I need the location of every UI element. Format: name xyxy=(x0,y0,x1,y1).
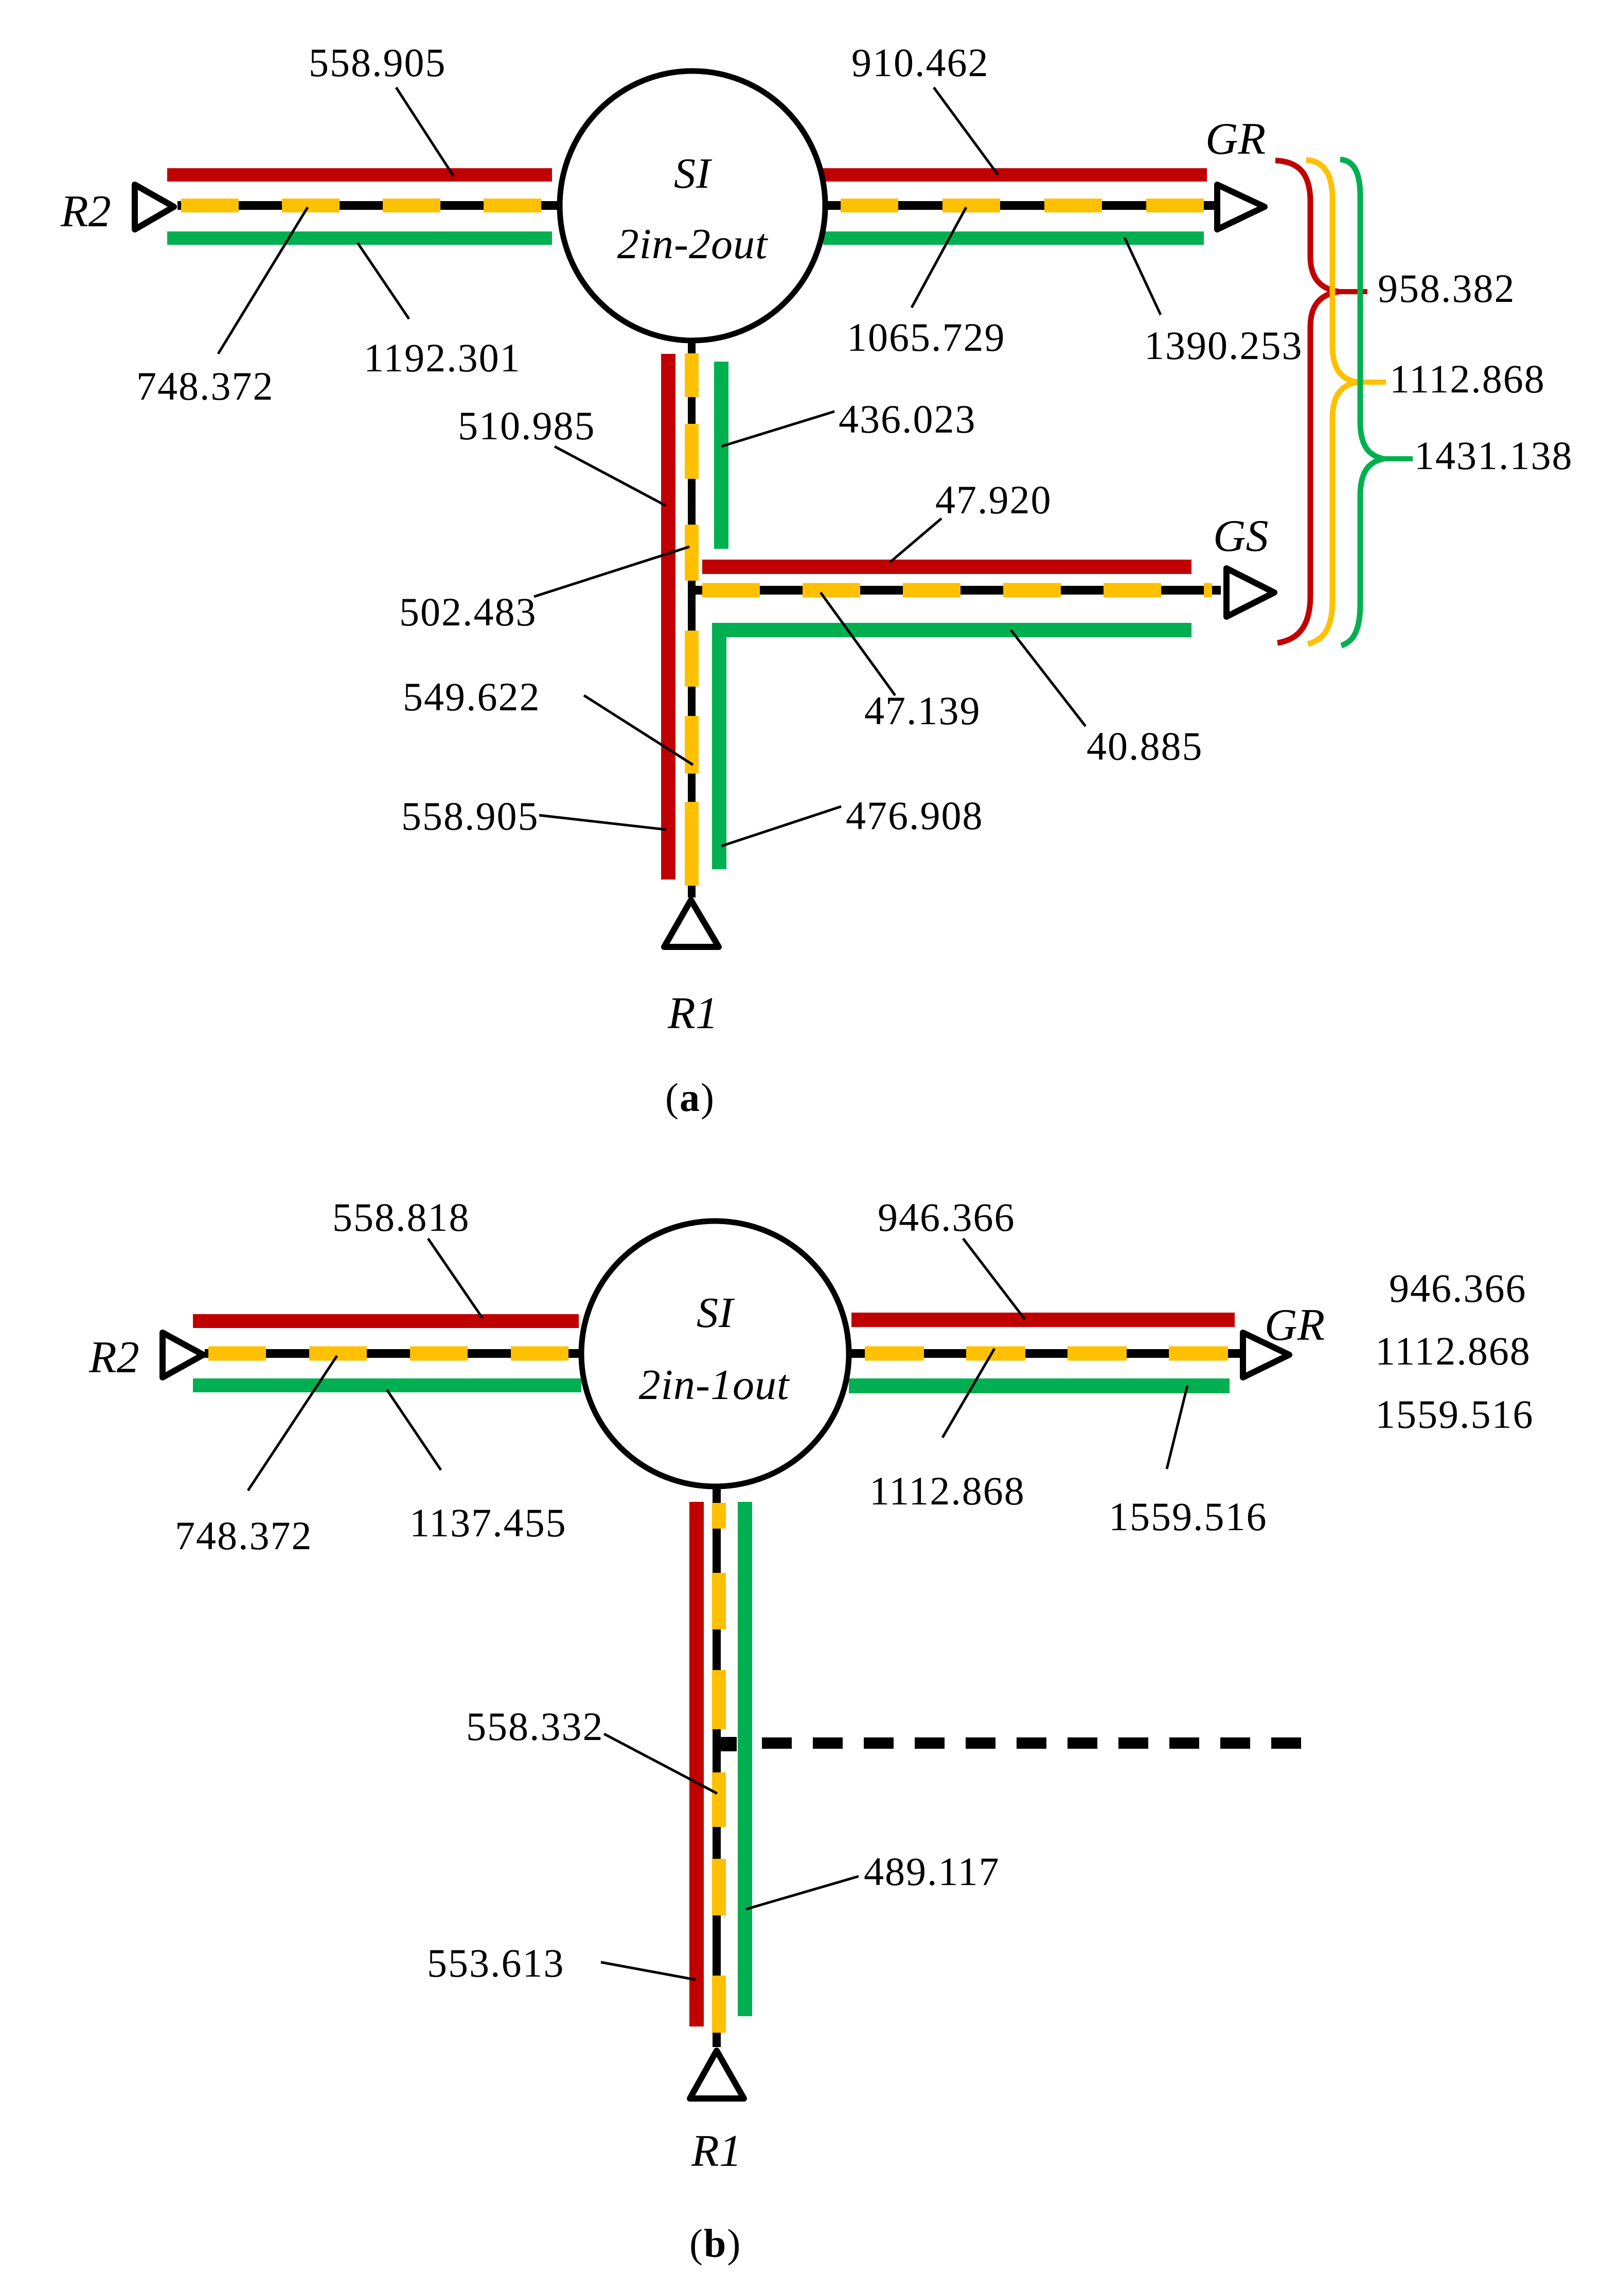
svg-text:1065.729: 1065.729 xyxy=(847,315,1006,360)
wire orange dashes vertical (b) xyxy=(712,1503,726,1529)
wire green R2 to SI (a) xyxy=(167,231,552,245)
svg-text:1559.516: 1559.516 xyxy=(1375,1392,1534,1437)
leader 553.613 (b) xyxy=(601,1962,696,1980)
leader 549.622 (a) xyxy=(584,695,693,765)
leader 1559.516 lower (b) xyxy=(1167,1386,1187,1469)
leader 558.905 (a) xyxy=(396,87,454,176)
leader 1192.301 (a) xyxy=(358,243,409,319)
FIGURE B xyxy=(88,1195,1534,2266)
svg-text:47.920: 47.920 xyxy=(935,477,1052,522)
brace red (a) xyxy=(1275,160,1339,643)
svg-text:1192.301: 1192.301 xyxy=(364,335,521,380)
svg-text:946.366: 946.366 xyxy=(878,1195,1016,1240)
wire green SI to GR (a) xyxy=(823,231,1204,245)
svg-text:1559.516: 1559.516 xyxy=(1109,1494,1268,1539)
svg-text:502.483: 502.483 xyxy=(399,589,537,634)
svg-text:748.372: 748.372 xyxy=(175,1513,313,1558)
svg-text:GR: GR xyxy=(1205,114,1266,164)
svg-text:553.613: 553.613 xyxy=(427,1941,565,1985)
leader 47.139 (a) xyxy=(821,593,895,695)
brace green (a) xyxy=(1340,159,1384,645)
brace orange tick (a) xyxy=(1357,380,1386,385)
wire red vertical (b) xyxy=(689,1502,704,2026)
svg-text:R2: R2 xyxy=(88,1333,139,1383)
wire green vertical upper (a) xyxy=(714,362,728,549)
wire green R2 to SI (b) xyxy=(193,1378,581,1392)
wire orange dashes R2 to SI (b) xyxy=(208,1347,571,1361)
leader 946.366 top (b) xyxy=(963,1239,1025,1319)
arrow GR (a) xyxy=(1217,185,1265,229)
leader 1112.868 lower (b) xyxy=(942,1349,994,1438)
svg-text:558.905: 558.905 xyxy=(309,40,447,85)
wire green GS branch horizontal (a) xyxy=(712,623,1191,637)
wire red vertical SI to R1 (a) xyxy=(661,354,675,880)
wire green vertical (b) xyxy=(738,1502,752,2016)
wire red R2 to SI (b) xyxy=(193,1314,579,1328)
arrow GS (a) xyxy=(1226,568,1274,617)
arrow R2 (b) xyxy=(163,1333,203,1377)
wire green SI to GR (b) xyxy=(849,1378,1230,1393)
leader 910.462 (a) xyxy=(934,87,998,175)
svg-text:1431.138: 1431.138 xyxy=(1414,433,1573,478)
svg-text:(b): (b) xyxy=(689,2221,741,2266)
arrow GR (b) xyxy=(1243,1333,1289,1377)
leader 748.372 (a) xyxy=(218,207,308,354)
wire black dashed R2 to SI (b) xyxy=(205,1349,584,1358)
leader 47.920 (a) xyxy=(890,518,941,562)
leader 436.023 (a) xyxy=(721,411,834,446)
svg-text:GR: GR xyxy=(1265,1300,1325,1350)
leader 40.885 (a) xyxy=(1011,630,1086,726)
junction tick (b) xyxy=(714,1737,737,1751)
wire red R2 to SI (a) xyxy=(167,168,552,182)
leader 502.483 (a) xyxy=(534,547,689,597)
svg-text:1112.868: 1112.868 xyxy=(1375,1329,1531,1373)
svg-text:958.382: 958.382 xyxy=(1378,266,1516,311)
wire green vertical lower (a) xyxy=(712,623,726,869)
svg-text:40.885: 40.885 xyxy=(1087,724,1203,768)
wire black dashed SI to GR (a) xyxy=(823,201,1218,210)
svg-text:SI: SI xyxy=(674,150,713,198)
svg-text:2in-2out: 2in-2out xyxy=(617,220,769,268)
svg-text:R2: R2 xyxy=(60,187,111,237)
wire orange dashes vertical (a) xyxy=(685,353,699,397)
node SI circle (b) xyxy=(581,1221,849,1486)
svg-text:748.372: 748.372 xyxy=(136,364,274,408)
wire orange dashes SI to GR (a) xyxy=(841,199,1207,212)
brace red tick (a) xyxy=(1339,289,1367,294)
leader 748.372 (b) xyxy=(248,1356,337,1491)
wire orange dashes GS branch (a) xyxy=(702,583,1212,598)
svg-text:1112.868: 1112.868 xyxy=(1390,356,1545,401)
leader 558.332 (b) xyxy=(604,1734,717,1793)
svg-text:(a): (a) xyxy=(665,1075,715,1120)
svg-text:558.905: 558.905 xyxy=(401,794,539,838)
svg-text:489.117: 489.117 xyxy=(864,1849,1000,1894)
arrow R2 (a) xyxy=(135,185,174,229)
wire orange dashes R2 to SI (a) xyxy=(181,199,544,212)
wire black dashed SI to GR (b) xyxy=(846,1349,1245,1358)
svg-text:2in-1out: 2in-1out xyxy=(639,1361,790,1409)
wire black vertical SI to R1 (a) xyxy=(688,339,696,898)
svg-text:R1: R1 xyxy=(691,2126,742,2176)
wire orange dashes SI to GR (b) xyxy=(865,1347,1230,1361)
svg-text:946.366: 946.366 xyxy=(1389,1266,1527,1311)
leader 489.117 (b) xyxy=(746,1876,859,1909)
svg-text:1390.253: 1390.253 xyxy=(1144,323,1303,368)
svg-text:476.908: 476.908 xyxy=(846,793,984,838)
svg-text:1137.455: 1137.455 xyxy=(410,1500,567,1545)
wire black vertical SI to R1 (b) xyxy=(713,1485,721,2047)
wire red SI to GR (b) xyxy=(851,1313,1235,1327)
leader 1137.455 (b) xyxy=(387,1390,441,1470)
arrow R1 (b) xyxy=(690,2051,744,2098)
svg-text:1112.868: 1112.868 xyxy=(869,1468,1025,1513)
leader 476.908 (a) xyxy=(721,806,841,846)
FIGURE A xyxy=(60,40,1573,1120)
brace orange (a) xyxy=(1306,160,1357,644)
wire red SI to GR (a) xyxy=(823,168,1207,182)
svg-text:558.818: 558.818 xyxy=(332,1195,470,1240)
wire black dashed horizontal (b) xyxy=(762,1737,1301,1749)
svg-text:436.023: 436.023 xyxy=(839,397,976,441)
leader 1390.253 (a) xyxy=(1125,238,1161,315)
wire red GS branch (a) xyxy=(702,560,1191,574)
brace green tick (a) xyxy=(1384,456,1413,461)
node SI circle (a) xyxy=(560,71,825,340)
wire black dashed GS branch (a) xyxy=(693,586,1221,595)
svg-text:910.462: 910.462 xyxy=(851,40,989,85)
leader 510.985 (a) xyxy=(555,446,666,506)
leader 558.818 (b) xyxy=(428,1239,483,1318)
svg-text:47.139: 47.139 xyxy=(864,688,981,733)
svg-text:R1: R1 xyxy=(667,989,718,1038)
svg-text:558.332: 558.332 xyxy=(466,1704,604,1749)
svg-text:510.985: 510.985 xyxy=(458,403,596,448)
arrow R1 (a) xyxy=(664,900,719,947)
wire black dashed R2 to SI (a) xyxy=(177,201,559,210)
leader 1065.729 (a) xyxy=(912,207,966,308)
leader 558.905 bottom (a) xyxy=(539,815,666,830)
svg-text:549.622: 549.622 xyxy=(403,674,541,719)
svg-text:SI: SI xyxy=(697,1289,735,1337)
svg-text:GS: GS xyxy=(1213,511,1269,561)
